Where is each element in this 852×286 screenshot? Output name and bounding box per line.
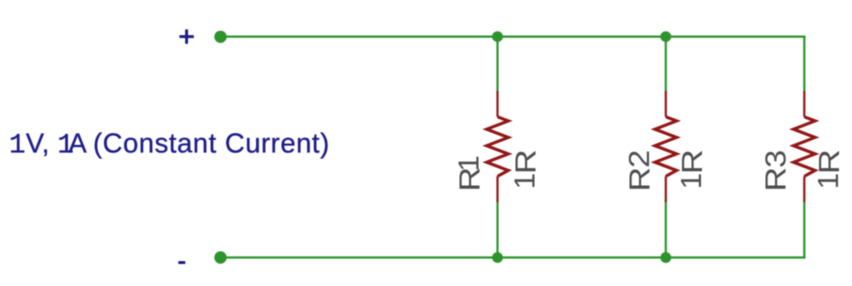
label R1 [453, 155, 486, 191]
label R3 [759, 150, 792, 192]
svg-text:R: R [509, 149, 542, 174]
wire R1 top lead [496, 37, 498, 92]
resistor R2 [655, 91, 677, 202]
svg-text:2: 2 [623, 150, 656, 168]
svg-text:R: R [623, 167, 656, 192]
svg-text:1: 1 [813, 173, 845, 189]
svg-text:1V, 1A (Constant Current): 1V, 1A (Constant Current) [9, 128, 330, 162]
svg-text:1: 1 [454, 155, 486, 171]
wire R2 bottom lead [665, 202, 667, 258]
junction dot bottom R2 [660, 252, 671, 263]
junction dot bottom R1 [492, 252, 503, 263]
label R3 value 1R [813, 149, 846, 189]
svg-text:R: R [676, 149, 709, 174]
label R2 [623, 150, 656, 192]
minus terminal symbol [178, 261, 185, 264]
wire R3 bottom lead [803, 202, 805, 258]
wire R3 top lead [803, 37, 805, 92]
svg-text:1: 1 [676, 173, 708, 189]
wire top rail [221, 35, 805, 37]
node terminal dot top-left [214, 31, 226, 43]
resistor R1 [487, 91, 509, 202]
resistor R3 [794, 91, 816, 202]
node terminal dot bottom-left [214, 251, 226, 263]
wire bottom rail [221, 256, 805, 258]
svg-text:R: R [813, 149, 846, 174]
label R1 value 1R [509, 149, 542, 189]
svg-text:1: 1 [509, 173, 541, 189]
svg-text:R: R [759, 167, 792, 192]
wire R1 bottom lead [496, 202, 498, 258]
label R2 value 1R [676, 149, 709, 189]
plus terminal symbol [179, 29, 193, 43]
wire R2 top lead [665, 37, 667, 92]
junction dot top R2 [660, 31, 671, 42]
svg-text:3: 3 [759, 150, 792, 168]
junction dot top R1 [492, 31, 503, 42]
